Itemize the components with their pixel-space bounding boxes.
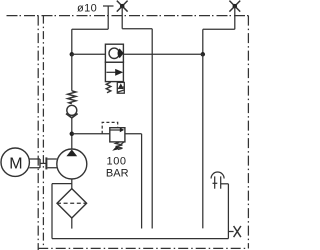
wire: X2 left bbox=[203, 28, 235, 30]
wire: filter drain stub bbox=[71, 218, 73, 229]
coupling pin bbox=[40, 162, 46, 164]
wire: tank right riser bbox=[227, 184, 229, 239]
enclosure boundary left outer (dash-dot) bbox=[37, 16, 39, 250]
relief valve V3 adjust arrow bbox=[115, 142, 125, 149]
pump P1 circle bbox=[57, 149, 87, 179]
node B junction dot bbox=[70, 132, 75, 137]
wire: P down to node A bbox=[71, 29, 73, 54]
valve V2 flow arrow bbox=[106, 71, 116, 73]
relief valve V3 adjust arrowhead bbox=[112, 146, 119, 151]
node C junction dot bbox=[201, 52, 206, 57]
wire: check valve to node B bbox=[71, 118, 73, 149]
valve V2 solenoid box bbox=[117, 82, 124, 93]
coupling bar 2 bbox=[45, 157, 47, 169]
port X1 symbol bbox=[117, 1, 128, 12]
coupling bar 1 bbox=[39, 159, 41, 168]
plugged port X3 bbox=[234, 226, 241, 237]
wire: relief return down bbox=[141, 134, 143, 229]
wire: node C down return bbox=[202, 54, 204, 228]
valve V2 flow arrowhead bbox=[115, 69, 123, 76]
wire: tank left riser bbox=[51, 184, 53, 239]
motor M1 circle bbox=[1, 148, 29, 176]
relief valve V3 arrow bbox=[110, 129, 120, 131]
breather B1 arc bbox=[211, 172, 224, 178]
relief valve V3 arrowhead bbox=[120, 128, 124, 133]
wire: port P down bbox=[107, 6, 109, 29]
enclosure boundary top (dash-dot) bbox=[4, 15, 248, 17]
valve V2 check seat (filled) bbox=[118, 49, 124, 59]
wire: valve V2 out to node C bbox=[123, 53, 202, 55]
svg-text:ø10: ø10 bbox=[77, 3, 97, 15]
valve V2 position 1 square bbox=[105, 44, 123, 62]
valve V2 solenoid triangle bbox=[118, 83, 124, 89]
wire: return line T1 bbox=[151, 29, 153, 229]
wire: tank tee left bbox=[52, 183, 72, 185]
valve V2 check ball bbox=[109, 48, 119, 58]
filter F1 element (dashed) bbox=[57, 202, 87, 204]
port X2 dot bbox=[233, 4, 238, 9]
check valve V1 seat bbox=[66, 114, 78, 118]
svg-text:100: 100 bbox=[107, 156, 127, 168]
svg-text:BAR: BAR bbox=[106, 167, 129, 179]
wire: X1 down bbox=[121, 6, 123, 29]
valve V2 solenoid slash 1 bbox=[118, 87, 124, 89]
relief valve V3 spring bbox=[116, 142, 123, 149]
enclosure boundary bottom (dash-dot) bbox=[38, 247, 248, 249]
port P pipe-end cap bbox=[103, 5, 114, 7]
filter F1 diamond bbox=[57, 189, 87, 218]
valve V2 return spring bbox=[106, 82, 111, 93]
node A junction dot bbox=[70, 52, 75, 57]
wire: relief out right bbox=[125, 133, 142, 135]
svg-text:M: M bbox=[9, 155, 22, 172]
wire: node B to relief valve bbox=[72, 133, 110, 135]
port X1 dot bbox=[120, 4, 125, 9]
relief valve V3 pilot line (dashed) bbox=[102, 122, 118, 133]
wire: tank bottom line bbox=[52, 238, 228, 240]
wire: breather connector bbox=[221, 183, 229, 185]
wire: pump suction down bbox=[71, 179, 73, 189]
spring (check valve V1 spring) bbox=[68, 91, 76, 104]
wire: node A down to spring bbox=[71, 54, 73, 91]
enclosure boundary left inner (dash-dot) bbox=[42, 16, 44, 247]
valve V2 solenoid slash 2 bbox=[118, 90, 124, 92]
wire: node A to valve V2 bbox=[72, 53, 106, 55]
wire: plugged port stub bottom right bbox=[228, 231, 233, 233]
check valve V1 ball bbox=[67, 105, 77, 115]
wire: X2 down bbox=[234, 6, 236, 29]
wire: P horizontal to left bbox=[72, 28, 108, 30]
pump P1 outlet triangle bbox=[66, 150, 77, 157]
shaft upper line bbox=[29, 158, 57, 160]
relief valve V3 square bbox=[110, 128, 125, 142]
breather B1 left prong bbox=[214, 176, 216, 188]
port X2 symbol bbox=[229, 1, 240, 12]
wire: X2 down to node C bbox=[202, 29, 204, 54]
shaft lower line bbox=[29, 167, 57, 169]
valve V2 position 2 square bbox=[105, 62, 123, 81]
enclosure boundary right (dash-dot) bbox=[247, 16, 249, 249]
wire: X1 right bbox=[122, 28, 152, 30]
breather B1 right prong bbox=[220, 176, 222, 188]
breather B1 crossbar bbox=[213, 182, 218, 184]
